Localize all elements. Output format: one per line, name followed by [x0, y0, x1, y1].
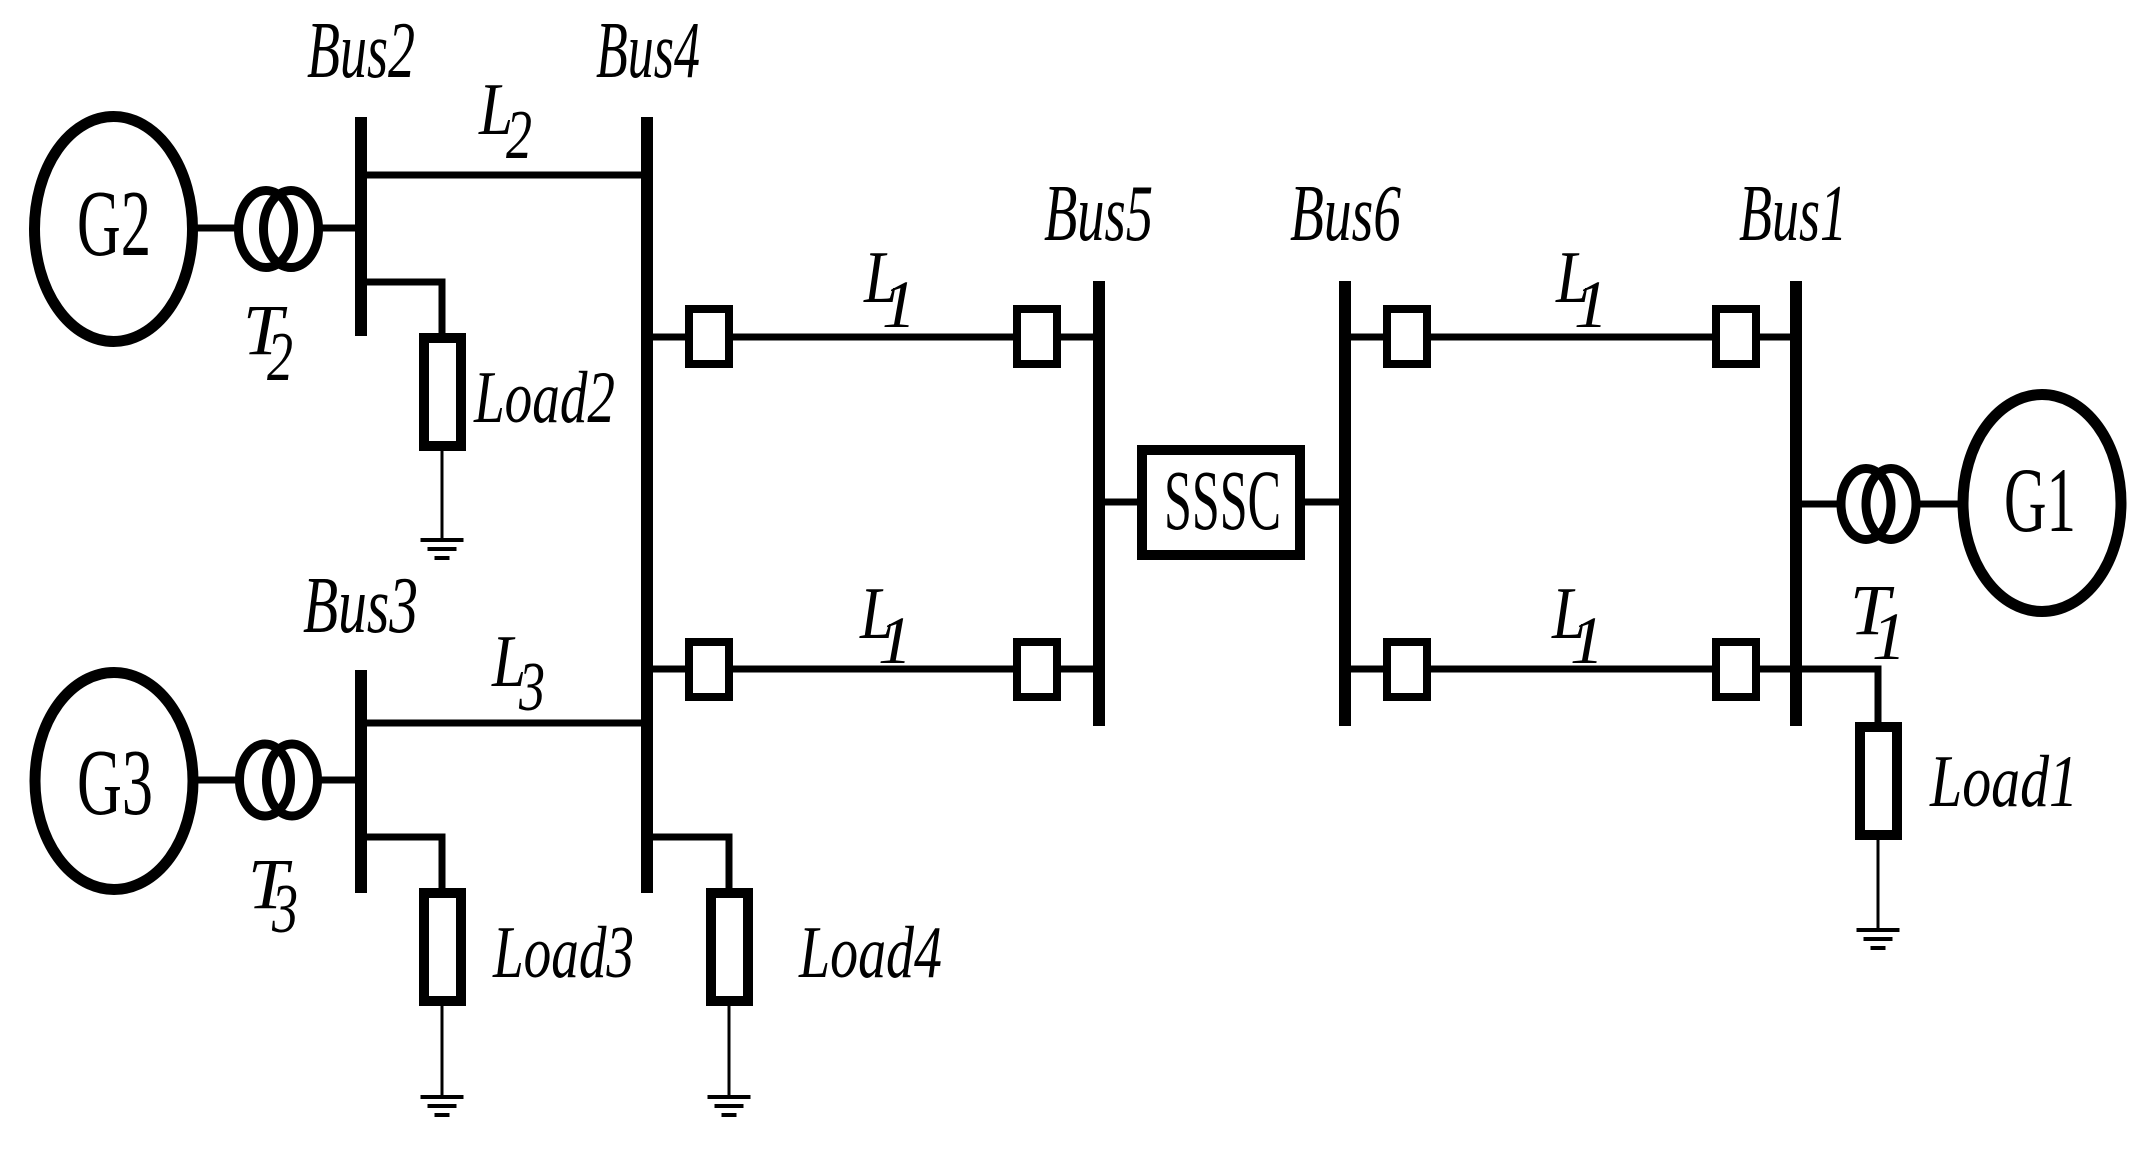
svg-text:3: 3	[518, 649, 545, 726]
svg-text:Bus4: Bus4	[596, 5, 700, 95]
svg-text:G1: G1	[2004, 449, 2076, 551]
svg-text:3: 3	[271, 871, 298, 948]
transformer T3	[240, 744, 318, 816]
bus Bus3	[355, 670, 367, 893]
svg-text:1: 1	[882, 266, 916, 342]
load Load1	[1860, 727, 1897, 835]
wire L2 Bus2 to Bus4	[367, 172, 641, 179]
wire Bus2 to Load2	[367, 279, 446, 339]
svg-text:Load1: Load1	[1929, 741, 2078, 823]
label L1 upper-right	[1555, 237, 1608, 342]
wire SSSC to Bus6	[1300, 499, 1339, 506]
load Load3	[424, 893, 461, 1001]
svg-text:Bus2: Bus2	[307, 5, 415, 95]
generator G1	[1963, 395, 2121, 612]
svg-text:G3: G3	[77, 731, 153, 835]
wire Load2 to ground	[441, 451, 444, 538]
svg-text:1: 1	[1574, 266, 1608, 342]
svg-text:Bus1: Bus1	[1739, 168, 1847, 258]
wire G3 to T3	[193, 777, 237, 784]
wire upper line L1 Bus6 to Bus1	[1351, 334, 1790, 341]
wire upper line L1 Bus4 to Bus5	[653, 334, 1093, 341]
SSSC box	[1142, 450, 1300, 555]
wire Bus1 to Load1	[1802, 666, 1882, 723]
bus Bus1	[1790, 281, 1802, 726]
label L1 lower-left	[859, 573, 912, 678]
svg-text:G2: G2	[77, 172, 151, 276]
wire Load3 to ground	[441, 1006, 444, 1095]
svg-text:2: 2	[506, 97, 532, 174]
bus Bus2	[355, 117, 367, 336]
svg-text:Bus3: Bus3	[303, 560, 418, 650]
breaker Bus5 upper	[1017, 309, 1057, 364]
wire Bus3 to Load3	[367, 834, 446, 894]
label T1	[1850, 570, 1906, 674]
wire Bus4 to Load4	[653, 834, 733, 894]
bus Bus5	[1093, 281, 1105, 726]
svg-text:1: 1	[1872, 598, 1906, 674]
breaker Bus4 upper	[689, 309, 729, 364]
wire T3 to Bus3	[316, 777, 356, 784]
wire Bus5 to SSSC	[1105, 499, 1142, 506]
breaker Bus6 lower	[1387, 642, 1427, 697]
transformer T1	[1841, 469, 1916, 540]
wire T2 to Bus2	[316, 225, 356, 232]
breaker Bus1 lower	[1716, 642, 1756, 697]
wire T1 to G1	[1917, 501, 1963, 508]
load Load2	[424, 338, 461, 446]
ground below Load1	[1857, 928, 1900, 950]
generator G2	[35, 117, 193, 342]
label T2	[243, 290, 293, 396]
ground below Load2	[421, 538, 464, 560]
svg-text:1: 1	[878, 602, 912, 678]
label L1 upper-left	[863, 237, 916, 342]
wire lower line L1 Bus4 to Bus5	[653, 666, 1093, 673]
ground below Load3	[421, 1095, 464, 1117]
label T3	[248, 844, 298, 948]
label L2	[478, 69, 532, 174]
svg-text:Load2: Load2	[473, 357, 615, 439]
breaker Bus1 upper	[1716, 309, 1756, 364]
svg-text:Load3: Load3	[492, 912, 634, 994]
breaker Bus4 lower	[689, 642, 729, 697]
ground below Load4	[708, 1095, 751, 1117]
load Load4	[711, 893, 748, 1001]
generator G3	[35, 673, 193, 890]
wire Bus1 to T1	[1802, 501, 1840, 508]
breaker Bus5 lower	[1017, 642, 1057, 697]
svg-text:Bus6: Bus6	[1290, 168, 1401, 258]
svg-text:1: 1	[1570, 602, 1604, 678]
breaker Bus6 upper	[1387, 309, 1427, 364]
svg-text:Load4: Load4	[798, 912, 942, 994]
label L1 lower-right	[1551, 573, 1604, 678]
wire L3 Bus3 to Bus4	[367, 720, 641, 727]
wire Load1 to ground	[1877, 840, 1880, 928]
wire G2 to T2	[193, 225, 237, 232]
wire lower line L1 Bus6 to Bus1	[1351, 666, 1790, 673]
label L3	[491, 621, 545, 726]
svg-text:Bus5: Bus5	[1044, 168, 1153, 258]
svg-text:2: 2	[267, 319, 293, 396]
bus Bus4	[641, 117, 653, 893]
transformer T2	[239, 191, 319, 268]
wire Load4 to ground	[728, 1006, 731, 1095]
bus Bus6	[1339, 281, 1351, 726]
svg-text:SSSC: SSSC	[1164, 452, 1281, 548]
